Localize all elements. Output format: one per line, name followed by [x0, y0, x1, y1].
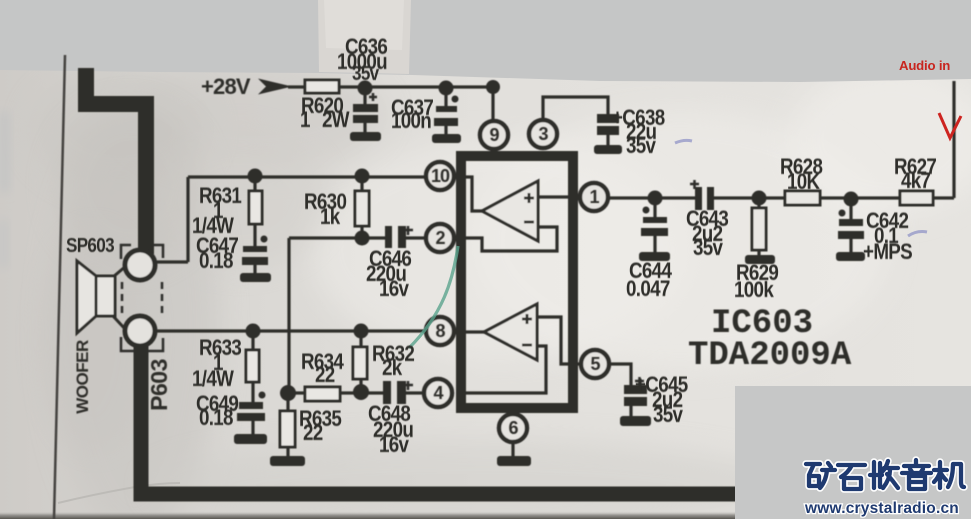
svg-text:+MPS: +MPS: [863, 240, 912, 265]
bottom paper edge shadow: [0, 511, 971, 519]
svg-text:0.047: 0.047: [626, 277, 670, 302]
paper patch in top band: [318, 0, 411, 74]
dashed connector box P603: [121, 245, 163, 351]
svg-text:35v: 35v: [626, 134, 657, 159]
node junction R629: [752, 191, 767, 206]
svg-text:100k: 100k: [734, 278, 774, 303]
wire pin9 drop: [491, 87, 494, 121]
resistor R628: [785, 191, 820, 205]
svg-text:35v: 35v: [653, 403, 684, 428]
svg-text:2k: 2k: [382, 356, 403, 381]
wire pin3 riser to C638: [543, 97, 608, 121]
resistor R630: [355, 176, 369, 238]
pin 5: [581, 350, 609, 378]
svg-text:16v: 16v: [379, 433, 410, 458]
wire +28V rail: [288, 85, 493, 88]
capacitor C649: [237, 402, 265, 434]
pin 2: [426, 224, 454, 252]
resistor R635: [280, 393, 295, 457]
wire pin5 to C645: [609, 364, 631, 385]
resistor R634: [305, 387, 340, 401]
resistor R633: [246, 331, 266, 402]
node junction R633 top: [246, 324, 261, 339]
capacitor C642: [838, 199, 864, 252]
svg-text:1/4W: 1/4W: [192, 367, 234, 392]
svg-text:4: 4: [433, 383, 443, 403]
svg-text:16v: 16v: [379, 277, 410, 302]
svg-text:8: 8: [435, 321, 445, 341]
resistor R620: [305, 80, 339, 93]
ground for pin6: [497, 456, 531, 466]
capacitor C645: [624, 377, 647, 417]
ground for C649: [234, 434, 267, 444]
thin border line left: [54, 55, 65, 519]
capacitor C647: [242, 246, 268, 273]
speaker SP603 symbol: [77, 261, 126, 333]
blue pen mark 2: [908, 232, 927, 237]
node junction C648/R632: [353, 384, 369, 400]
wire pin4 line: [288, 391, 424, 394]
pin 6: [499, 414, 527, 442]
ground for C638: [594, 145, 622, 154]
node junction at C637: [439, 81, 454, 96]
op-amp A2 plus input: [522, 314, 532, 324]
ground for C644: [639, 252, 670, 261]
svg-text:4k7: 4k7: [901, 169, 931, 194]
svg-text:35v: 35v: [693, 236, 724, 261]
wire A2 feedback to pin4: [463, 346, 546, 393]
+28V input arrow: [258, 79, 292, 95]
svg-text:22: 22: [315, 363, 335, 388]
watermark 矿石收音机: [806, 460, 964, 489]
thick schematic border top-left step: [86, 68, 146, 254]
gray sliver left edge upper: [0, 112, 9, 192]
svg-text:100n: 100n: [391, 109, 431, 134]
flat gray band top: [0, 0, 971, 82]
op-amp IC603 body: [461, 156, 573, 408]
resistor R631: [249, 176, 268, 246]
op-amp A2 minus input: [522, 344, 532, 347]
pin 9: [480, 121, 508, 149]
wire pin2 line: [289, 238, 427, 393]
capacitor C637: [434, 88, 459, 134]
resistor R632: [353, 331, 367, 392]
svg-text:1k: 1k: [320, 205, 341, 230]
wire A2 output to pin5: [537, 317, 581, 364]
node junction R634/R635: [280, 385, 296, 401]
pin 4: [424, 379, 452, 407]
wire pin10 line from speaker top terminal: [157, 177, 427, 262]
svg-text:+28V: +28V: [201, 74, 251, 99]
ground for C645: [620, 416, 651, 426]
op-amp A1 minus input: [524, 221, 534, 224]
op-amp A2 triangle: [484, 304, 537, 360]
node junction R630 top: [355, 169, 370, 184]
op-amp A1 plus input: [524, 193, 534, 203]
ground for C647: [240, 273, 271, 282]
node junction R631 top: [248, 169, 263, 184]
svg-text:2: 2: [435, 228, 445, 248]
resistor R627: [900, 191, 933, 205]
node junction at C636: [358, 81, 373, 96]
resistor R629: [752, 198, 766, 256]
node junction C642: [844, 192, 859, 207]
svg-text:10K: 10K: [787, 170, 820, 195]
svg-text:6: 6: [508, 418, 518, 438]
thick schematic border left vertical (below speaker): [141, 345, 737, 494]
capacitor C643: [690, 180, 714, 210]
svg-text:1: 1: [300, 108, 310, 133]
svg-text:www.crystalradio.cn: www.crystalradio.cn: [804, 500, 959, 517]
wire main audio line pin1 to input: [608, 81, 954, 198]
ground for C642: [836, 252, 865, 261]
svg-text:3: 3: [538, 124, 548, 144]
paper crease bottom-left: [58, 483, 180, 503]
wire pin8 internal link: [463, 330, 484, 333]
pin 8: [426, 317, 454, 345]
node junction R632 top: [354, 324, 369, 339]
capacitor C644: [641, 198, 668, 252]
ground for R629: [745, 255, 775, 264]
svg-text:TDA2009A: TDA2009A: [688, 337, 852, 375]
svg-text:35v: 35v: [352, 62, 380, 85]
gray sliver left edge lower: [0, 220, 7, 268]
pin 1: [580, 183, 608, 211]
ground for C637: [432, 134, 461, 143]
flat gray patch bottom-right: [735, 386, 971, 519]
pin 10: [426, 162, 454, 190]
wire pin8 line from speaker bottom terminal: [157, 329, 427, 332]
wire A1 feedback to pin2: [463, 227, 557, 251]
svg-text:Audio in: Audio in: [899, 58, 950, 73]
blue pen mark 1: [675, 140, 692, 143]
wire A1 output to pin1: [538, 195, 581, 198]
svg-text:22: 22: [303, 421, 323, 446]
svg-text:P603: P603: [146, 359, 172, 411]
red annotation arrow: [939, 113, 961, 138]
capacitor C646: [385, 226, 413, 248]
svg-text:SP603: SP603: [66, 234, 114, 257]
capacitor C636: [353, 88, 378, 132]
ground for R635: [270, 456, 305, 466]
ground for C636: [350, 132, 381, 141]
svg-text:1: 1: [589, 187, 599, 207]
green pen mark: [409, 246, 458, 348]
node junction R630 bottom / C646: [355, 231, 370, 246]
svg-text:10: 10: [431, 166, 450, 186]
pin 3: [529, 120, 557, 148]
svg-text:0.18: 0.18: [199, 249, 233, 274]
svg-text:WOOFER: WOOFER: [73, 340, 92, 414]
wire pin10 internal link: [463, 177, 482, 211]
svg-text:9: 9: [489, 125, 499, 145]
capacitor C648: [383, 381, 413, 404]
node junction C644: [648, 191, 663, 206]
svg-text:2W: 2W: [322, 108, 350, 133]
svg-text:5: 5: [590, 354, 600, 374]
node junction pin9 drop: [486, 80, 500, 94]
svg-text:0.18: 0.18: [199, 406, 233, 431]
speaker connector circle bottom: [125, 316, 155, 346]
wire pin6 to ground: [511, 442, 514, 457]
speaker connector circle top: [125, 250, 155, 280]
op-amp A1 triangle: [482, 181, 538, 241]
capacitor C638: [597, 114, 619, 145]
